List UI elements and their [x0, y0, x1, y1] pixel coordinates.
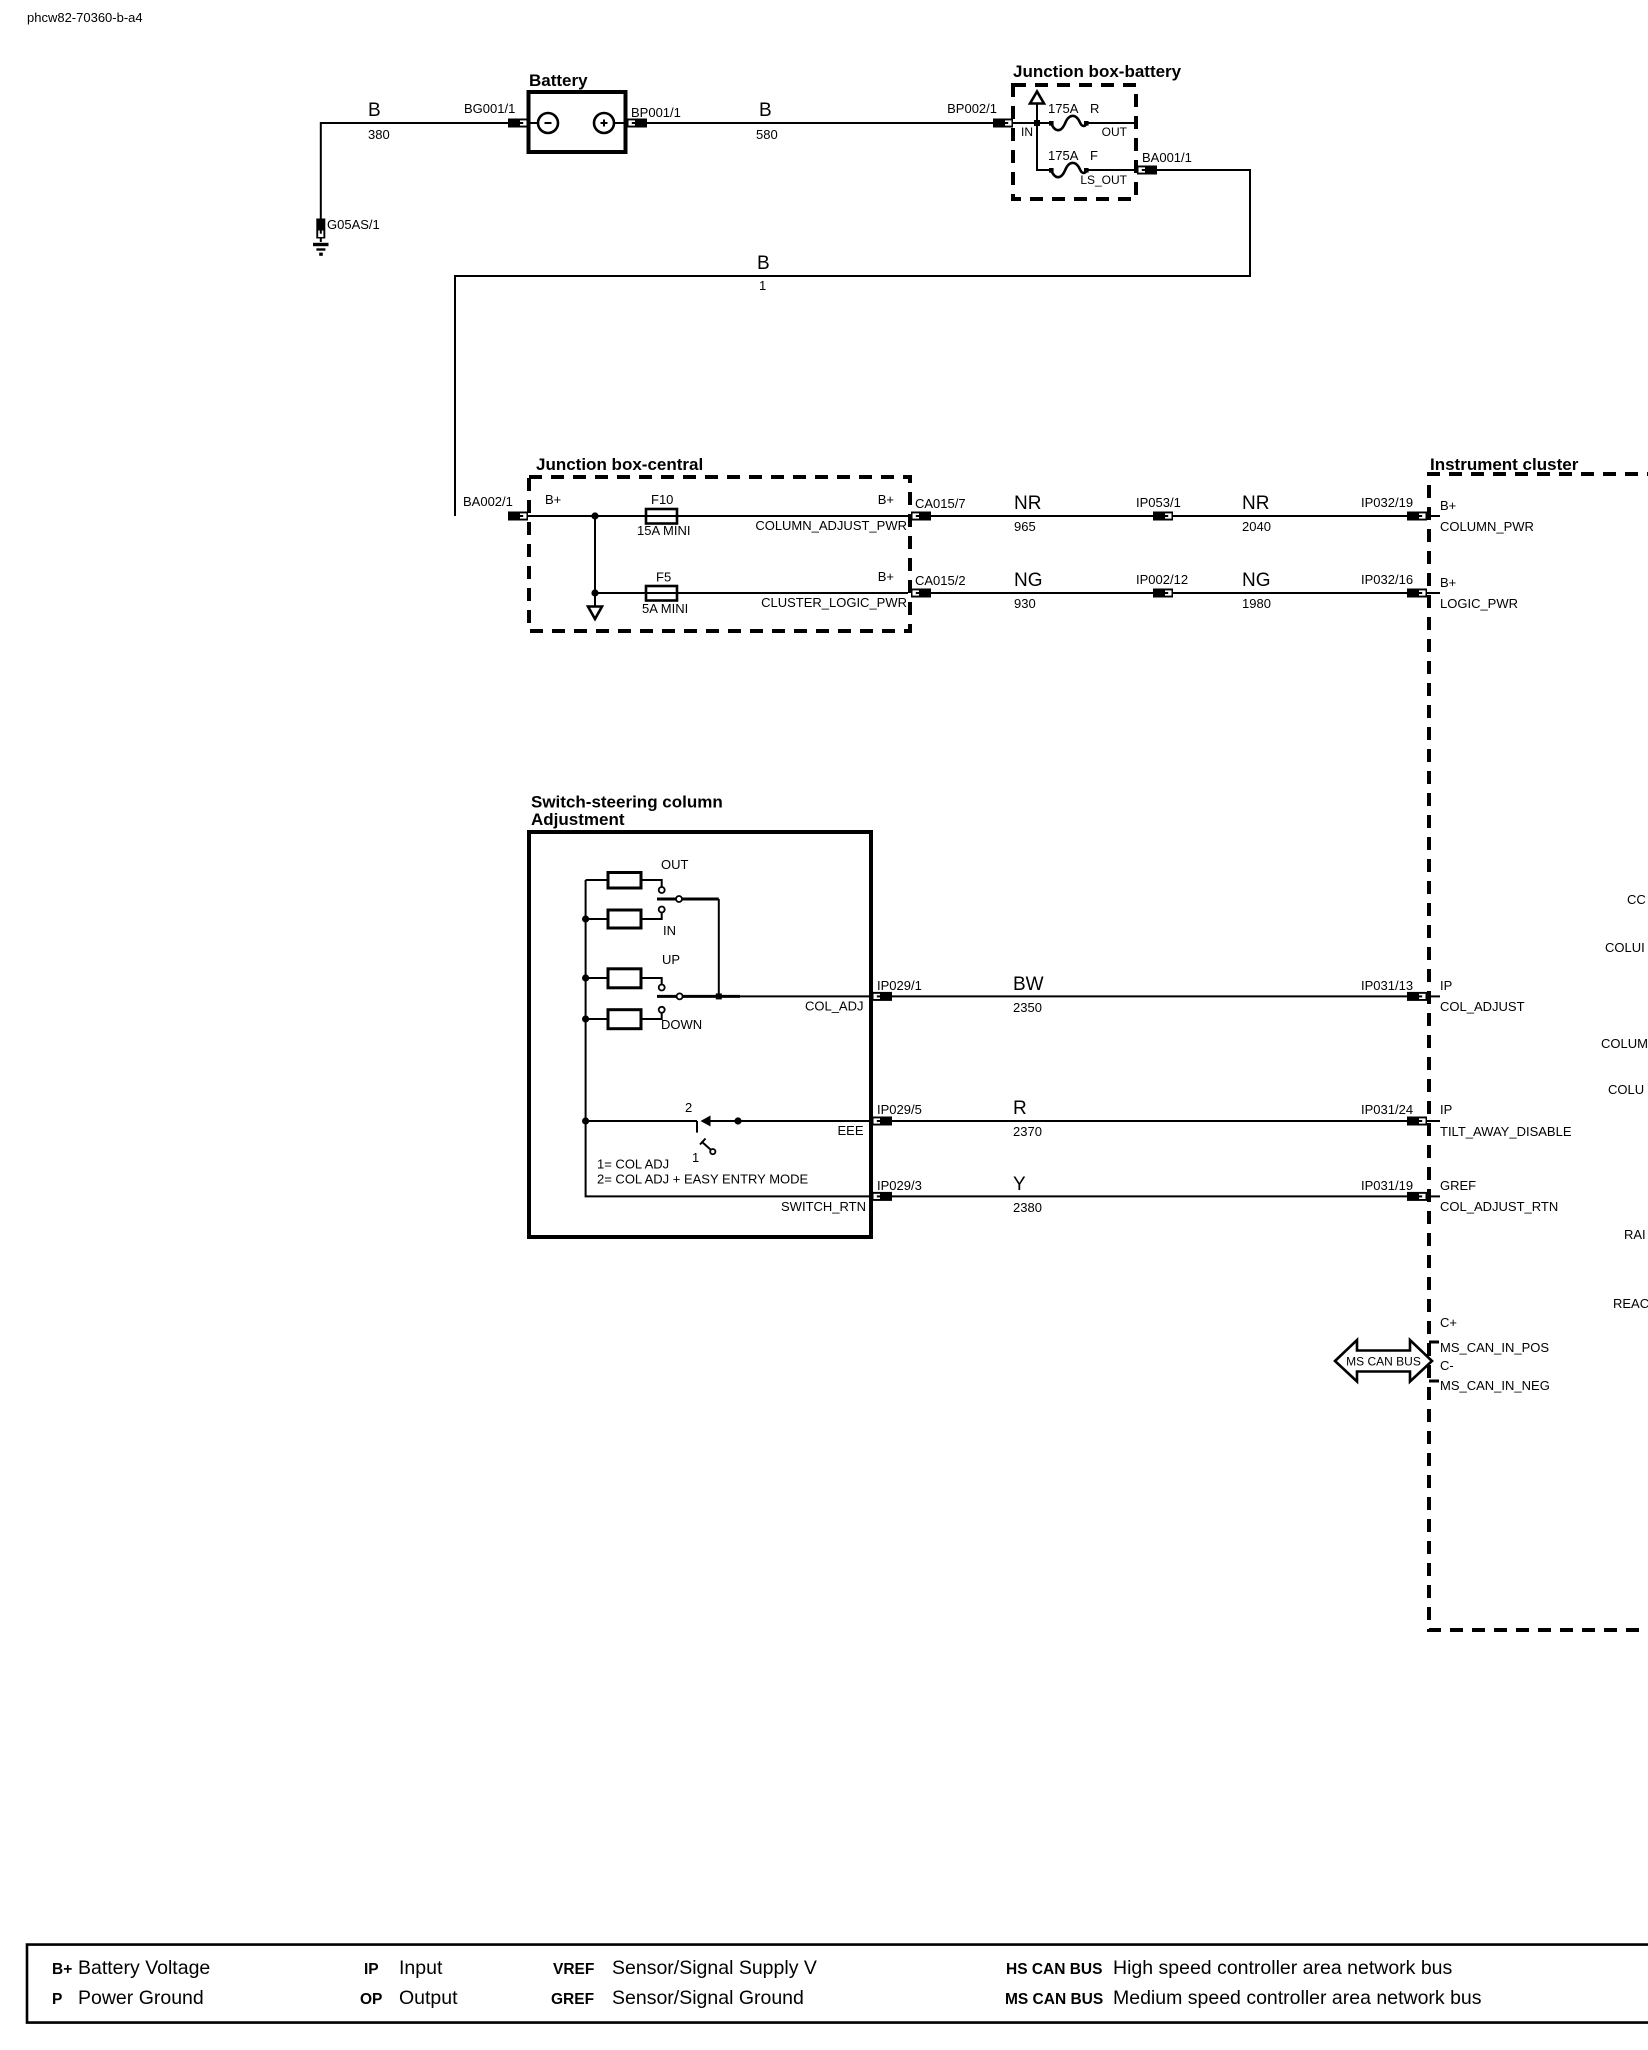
svg-text:LS_OUT: LS_OUT — [1080, 173, 1127, 187]
wire into cluster pin IP col_adjust — [1427, 995, 1440, 997]
wire B 580 (battery positive to junction box) — [647, 122, 993, 124]
ground connector plug (vertical, notch down) — [316, 219, 325, 239]
svg-text:B+: B+ — [1440, 575, 1456, 590]
svg-text:Battery: Battery — [529, 71, 588, 90]
node junction on B+ rail — [591, 512, 598, 519]
wire into cluster pin GREF — [1427, 1195, 1440, 1197]
node junction COL_ADJ — [716, 993, 722, 999]
node junction at IN — [1034, 120, 1040, 126]
svg-text:1: 1 — [692, 1150, 699, 1165]
switch wiper arrowhead — [701, 1116, 711, 1127]
battery negative terminal — [530, 122, 538, 124]
wire B 380 (battery negative to ground) — [321, 123, 508, 219]
battery positive terminal — [594, 113, 614, 133]
svg-text:15A MINI: 15A MINI — [637, 523, 690, 538]
connector BA002/1 — [508, 512, 528, 521]
svg-text:Medium speed controller area n: Medium speed controller area network bus — [1113, 1987, 1482, 2009]
wire R 2370 — [892, 1120, 1407, 1122]
svg-text:BW: BW — [1013, 974, 1044, 995]
svg-text:IP: IP — [1440, 978, 1452, 993]
node junction UP — [582, 974, 589, 981]
wire COL_ADJ to box edge — [740, 995, 872, 997]
connector CA015/2 — [911, 589, 931, 598]
position 1 lever — [702, 1142, 711, 1150]
wire wiper to box edge — [710, 1120, 872, 1122]
svg-text:IP031/24: IP031/24 — [1361, 1102, 1413, 1117]
fuse F10 15A MINI — [646, 509, 677, 524]
contact circle UP — [659, 985, 665, 991]
svg-text:COLUMN_ADJUST_PWR: COLUMN_ADJUST_PWR — [755, 518, 907, 533]
vertical rail to second fuse — [594, 516, 596, 593]
svg-text:580: 580 — [756, 127, 778, 142]
connector IP031/13 — [1407, 992, 1427, 1001]
svg-text:COL_ADJUST: COL_ADJUST — [1440, 999, 1525, 1014]
svg-text:OP: OP — [360, 1991, 382, 2008]
contact circle IN — [659, 907, 665, 913]
contact circle OUT — [659, 887, 665, 893]
svg-text:RAI: RAI — [1624, 1227, 1646, 1242]
svg-text:COL_ADJUST_RTN: COL_ADJUST_RTN — [1440, 1199, 1558, 1214]
connector BP002/1 — [993, 119, 1013, 128]
svg-text:NR: NR — [1014, 493, 1041, 514]
connector IP029/5 — [872, 1117, 892, 1126]
svg-text:COLUM: COLUM — [1601, 1036, 1648, 1051]
svg-text:BP002/1: BP002/1 — [947, 101, 997, 116]
svg-text:175A: 175A — [1048, 101, 1079, 116]
svg-text:1: 1 — [759, 278, 766, 293]
node junction DOWN — [582, 1015, 589, 1022]
wire pole to col_adj node — [718, 899, 720, 996]
svg-text:EEE: EEE — [837, 1123, 863, 1138]
svg-text:2380: 2380 — [1013, 1200, 1042, 1215]
fuse 175A F — [1049, 168, 1054, 173]
wire resistor IN to contact — [641, 913, 662, 919]
wire fuse R to OUT — [1087, 122, 1136, 124]
ground G05AS/1 — [320, 238, 322, 242]
svg-text:IP053/1: IP053/1 — [1136, 495, 1181, 510]
svg-text:C+: C+ — [1440, 1315, 1457, 1330]
switch pole up/down (COL_ADJ) — [657, 995, 740, 998]
wire NG 1980 — [1173, 592, 1407, 594]
contact circle DOWN — [659, 1007, 665, 1013]
connector BG001/1 — [508, 119, 528, 128]
svg-text:IP: IP — [1440, 1102, 1452, 1117]
position 2 contact tick — [696, 1121, 698, 1133]
node junction on EEE wire — [734, 1117, 741, 1124]
svg-text:Junction box-battery: Junction box-battery — [1013, 62, 1182, 81]
junction box-central dashed outline — [529, 477, 910, 631]
svg-text:TILT_AWAY_DISABLE: TILT_AWAY_DISABLE — [1440, 1124, 1572, 1139]
connector BA001/1 — [1137, 166, 1157, 175]
svg-text:NG: NG — [1014, 570, 1043, 591]
svg-text:B+: B+ — [878, 569, 894, 584]
svg-text:C-: C- — [1440, 1358, 1454, 1373]
resistor IN — [586, 918, 608, 920]
svg-text:VREF: VREF — [553, 1961, 594, 1978]
resistor DOWN — [586, 1018, 608, 1020]
svg-text:UP: UP — [662, 952, 680, 967]
connector IP032/16 — [1407, 589, 1427, 598]
svg-text:BP001/1: BP001/1 — [631, 105, 681, 120]
svg-text:2040: 2040 — [1242, 519, 1271, 534]
svg-text:IP031/19: IP031/19 — [1361, 1178, 1413, 1193]
svg-text:B+: B+ — [1440, 498, 1456, 513]
node junction at F5 rail — [591, 589, 598, 596]
svg-text:F10: F10 — [651, 492, 673, 507]
pin stub MS_CAN_IN_POS — [1429, 1341, 1439, 1344]
svg-text:B+: B+ — [878, 492, 894, 507]
svg-text:P: P — [52, 1991, 62, 2008]
connector IP031/24 — [1407, 1117, 1427, 1126]
svg-text:Power Ground: Power Ground — [78, 1987, 204, 2009]
svg-text:NG: NG — [1242, 570, 1271, 591]
switch box outline — [529, 832, 871, 1237]
svg-text:High speed controller area net: High speed controller area network bus — [1113, 1957, 1453, 1979]
wire B+ to fuse F10 — [528, 515, 908, 517]
svg-text:BA001/1: BA001/1 — [1142, 150, 1192, 165]
svg-text:CA015/7: CA015/7 — [915, 496, 966, 511]
svg-text:REAC: REAC — [1613, 1296, 1648, 1311]
svg-text:COLUMN_PWR: COLUMN_PWR — [1440, 519, 1534, 534]
connector IP053/1 — [1153, 512, 1173, 521]
svg-text:OUT: OUT — [1102, 125, 1128, 139]
svg-text:2: 2 — [685, 1100, 692, 1115]
svg-text:MS CAN BUS: MS CAN BUS — [1346, 1355, 1421, 1369]
svg-text:IP029/5: IP029/5 — [877, 1102, 922, 1117]
svg-text:Output: Output — [399, 1987, 458, 2009]
svg-text:B: B — [759, 100, 772, 121]
svg-text:2= COL ADJ + EASY ENTRY MODE: 2= COL ADJ + EASY ENTRY MODE — [597, 1172, 809, 1187]
svg-text:COLU: COLU — [1608, 1082, 1644, 1097]
svg-text:5A MINI: 5A MINI — [642, 601, 688, 616]
power continues arrow (up triangle) — [1030, 92, 1044, 104]
svg-text:IP032/19: IP032/19 — [1361, 495, 1413, 510]
svg-text:Instrument cluster: Instrument cluster — [1430, 455, 1579, 474]
svg-text:Junction box-central: Junction box-central — [536, 455, 703, 474]
wire NR 965 — [931, 515, 1153, 517]
svg-text:1980: 1980 — [1242, 596, 1271, 611]
svg-text:NR: NR — [1242, 493, 1269, 514]
svg-text:Y: Y — [1013, 1174, 1026, 1195]
svg-text:F5: F5 — [656, 570, 671, 585]
svg-text:2370: 2370 — [1013, 1124, 1042, 1139]
wire from arrow to IN node — [1036, 104, 1038, 124]
svg-text:GREF: GREF — [551, 1991, 594, 2008]
wire resistor UP to contact — [641, 978, 662, 984]
svg-text:B: B — [368, 100, 381, 121]
svg-text:DOWN: DOWN — [661, 1017, 702, 1032]
instrument cluster dashed outline — [1429, 474, 1648, 1630]
svg-text:IP002/12: IP002/12 — [1136, 572, 1188, 587]
wire Y 2380 — [892, 1195, 1407, 1197]
svg-text:Sensor/Signal Supply V: Sensor/Signal Supply V — [612, 1957, 817, 1979]
svg-text:GREF: GREF — [1440, 1178, 1476, 1193]
wire IN node down to fuse F — [1037, 123, 1051, 170]
resistor OUT — [586, 879, 608, 881]
svg-text:CC: CC — [1627, 892, 1646, 907]
pin stub MS_CAN_IN_NEG — [1429, 1380, 1439, 1383]
svg-text:B: B — [757, 253, 770, 274]
svg-text:BG001/1: BG001/1 — [464, 101, 515, 116]
svg-text:MS_CAN_IN_POS: MS_CAN_IN_POS — [1440, 1340, 1549, 1355]
svg-text:Input: Input — [399, 1957, 443, 1979]
svg-text:COLUI: COLUI — [1605, 940, 1645, 955]
svg-text:OUT: OUT — [661, 857, 689, 872]
svg-text:F: F — [1090, 148, 1098, 163]
svg-text:Adjustment: Adjustment — [531, 810, 625, 829]
svg-text:1= COL ADJ: 1= COL ADJ — [597, 1157, 669, 1172]
wire rail to fuse F5 — [595, 592, 908, 594]
wire switch return rail — [586, 1121, 872, 1196]
svg-text:Switch-steering column: Switch-steering column — [531, 793, 723, 812]
connector IP032/19 — [1407, 512, 1427, 521]
wire resistor DOWN to contact — [641, 1013, 662, 1019]
svg-text:Battery Voltage: Battery Voltage — [78, 1957, 210, 1979]
svg-text:COL_ADJ: COL_ADJ — [805, 999, 864, 1014]
svg-text:IP029/1: IP029/1 — [877, 978, 922, 993]
fuse F5 5A MINI — [646, 586, 677, 601]
svg-text:MS_CAN_IN_NEG: MS_CAN_IN_NEG — [1440, 1378, 1550, 1393]
svg-text:R: R — [1090, 101, 1099, 116]
wire B 1 (junction box battery to junction box central) — [455, 170, 1250, 516]
svg-text:SWITCH_RTN: SWITCH_RTN — [781, 1199, 866, 1214]
svg-text:phcw82-70360-b-a4: phcw82-70360-b-a4 — [27, 10, 143, 25]
wire into cluster pin IP tilt away — [1427, 1120, 1440, 1122]
wire resistor OUT to contact — [641, 880, 662, 887]
svg-text:BA002/1: BA002/1 — [463, 494, 513, 509]
wire fuse F to LS_OUT — [1087, 169, 1137, 171]
svg-text:IP: IP — [364, 1961, 379, 1978]
svg-text:IN: IN — [1021, 125, 1033, 139]
wire IN to fuses — [1013, 122, 1051, 124]
svg-text:IP032/16: IP032/16 — [1361, 572, 1413, 587]
switch pole out/in — [657, 898, 719, 901]
node junction IN — [582, 915, 589, 922]
svg-text:R: R — [1013, 1098, 1027, 1119]
wire NG 930 — [931, 592, 1153, 594]
svg-text:380: 380 — [368, 127, 390, 142]
svg-text:B+: B+ — [545, 492, 561, 507]
svg-text:G05AS/1: G05AS/1 — [327, 217, 380, 232]
svg-text:B+: B+ — [52, 1961, 72, 1978]
node junction EEE rail — [582, 1117, 589, 1124]
svg-text:930: 930 — [1014, 596, 1036, 611]
junction box-battery dashed outline — [1013, 85, 1136, 199]
svg-text:IP031/13: IP031/13 — [1361, 978, 1413, 993]
svg-text:CLUSTER_LOGIC_PWR: CLUSTER_LOGIC_PWR — [761, 595, 907, 610]
svg-text:2350: 2350 — [1013, 1000, 1042, 1015]
connector IP029/1 — [872, 992, 892, 1001]
svg-text:CA015/2: CA015/2 — [915, 573, 966, 588]
MS CAN BUS arrow — [1335, 1340, 1432, 1382]
connector IP002/12 — [1153, 589, 1173, 598]
connector IP031/19 — [1407, 1192, 1427, 1201]
svg-text:MS CAN BUS: MS CAN BUS — [1005, 1991, 1103, 2008]
connector CA015/7 — [911, 512, 931, 521]
wire into cluster pin B+ logic — [1427, 592, 1440, 594]
resistor bus rail — [585, 880, 587, 1121]
svg-text:175A: 175A — [1048, 148, 1079, 163]
wire BW 2350 — [892, 995, 1407, 997]
resistor UP — [586, 977, 608, 979]
svg-text:HS CAN BUS: HS CAN BUS — [1006, 1961, 1102, 1978]
connector BP001/1 — [627, 119, 647, 128]
svg-text:965: 965 — [1014, 519, 1036, 534]
svg-text:IP029/3: IP029/3 — [877, 1178, 922, 1193]
connector IP029/3 — [872, 1192, 892, 1201]
fuse 175A R — [1049, 121, 1054, 126]
wire EEE rail — [586, 1120, 697, 1122]
svg-text:IN: IN — [663, 923, 676, 938]
svg-text:Sensor/Signal Ground: Sensor/Signal Ground — [612, 1987, 804, 2009]
wire into cluster pin B+ column — [1427, 515, 1440, 517]
svg-text:LOGIC_PWR: LOGIC_PWR — [1440, 596, 1518, 611]
legend box — [27, 1945, 1648, 2023]
power continues arrow (down triangle) — [594, 593, 596, 606]
wire NR 2040 — [1173, 515, 1407, 517]
